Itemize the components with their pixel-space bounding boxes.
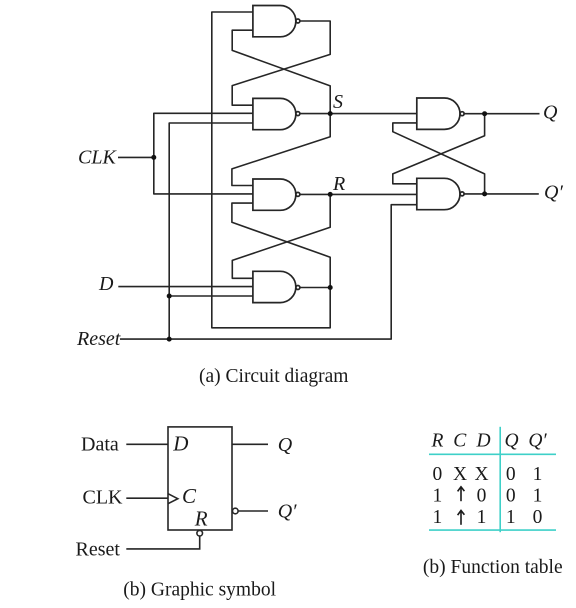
svg-text:1: 1: [433, 507, 443, 528]
svg-text:D: D: [475, 431, 490, 452]
svg-text:X: X: [474, 464, 488, 485]
svg-text:Q′: Q′: [544, 182, 563, 204]
svg-text:D: D: [98, 273, 114, 295]
svg-text:Q: Q: [543, 102, 558, 124]
svg-text:(b) Function table: (b) Function table: [423, 557, 563, 578]
svg-text:C: C: [453, 431, 467, 452]
svg-text:CLK: CLK: [78, 147, 117, 169]
svg-text:D: D: [172, 432, 188, 456]
svg-text:Q′: Q′: [278, 501, 297, 523]
svg-text:0: 0: [477, 486, 487, 507]
svg-text:R: R: [431, 431, 444, 452]
svg-text:0: 0: [533, 507, 543, 528]
svg-text:Reset: Reset: [76, 538, 121, 560]
svg-text:CLK: CLK: [83, 487, 124, 509]
svg-text:1: 1: [533, 486, 543, 507]
svg-text:Data: Data: [81, 434, 119, 456]
svg-text:1: 1: [506, 507, 516, 528]
svg-text:0: 0: [433, 464, 443, 485]
svg-text:R: R: [332, 173, 345, 195]
svg-text:Q: Q: [278, 434, 293, 456]
svg-text:C: C: [182, 484, 197, 508]
svg-text:1: 1: [433, 486, 443, 507]
svg-text:Reset: Reset: [76, 328, 121, 350]
svg-text:Q′: Q′: [528, 431, 547, 452]
svg-text:0: 0: [506, 464, 516, 485]
svg-text:0: 0: [506, 486, 516, 507]
svg-text:1: 1: [477, 507, 487, 528]
svg-text:R: R: [194, 507, 208, 531]
svg-text:X: X: [453, 464, 467, 485]
svg-text:S: S: [333, 91, 343, 113]
svg-text:1: 1: [533, 464, 543, 485]
svg-text:(a) Circuit diagram: (a) Circuit diagram: [199, 366, 348, 387]
svg-text:(b) Graphic symbol: (b) Graphic symbol: [123, 580, 276, 601]
svg-text:Q: Q: [504, 431, 518, 452]
